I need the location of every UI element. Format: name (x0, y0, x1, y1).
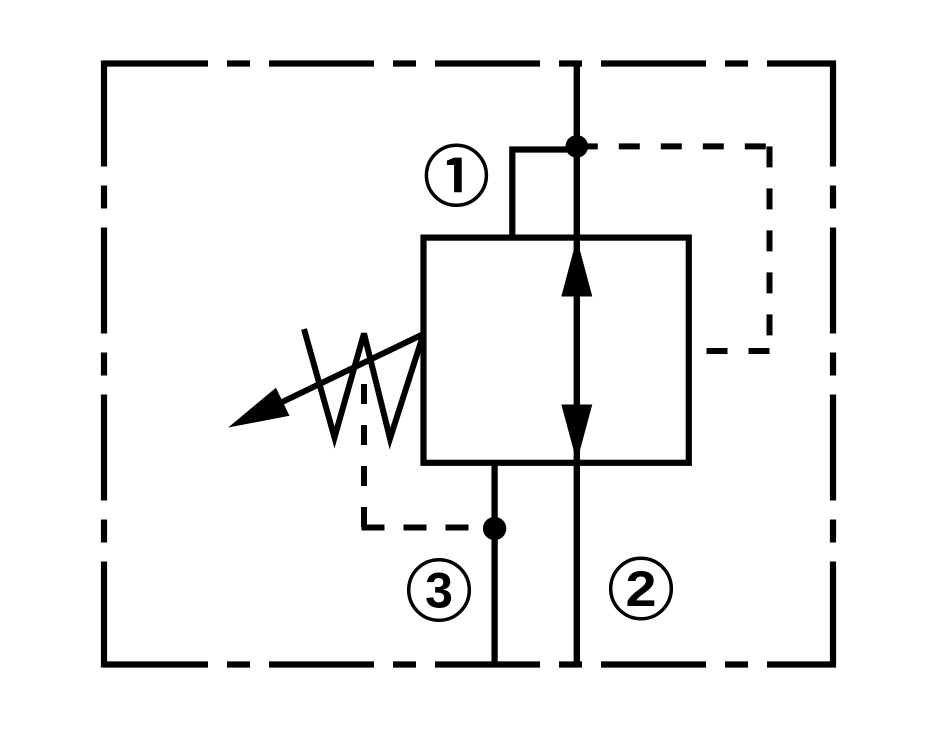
svg-text:2: 2 (626, 561, 657, 617)
svg-text:3: 3 (425, 563, 453, 619)
